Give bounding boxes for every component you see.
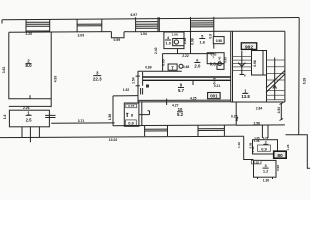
svg-text:4.93: 4.93: [54, 76, 58, 83]
svg-text:0.65: 0.65: [162, 59, 166, 66]
svg-text:2.32: 2.32: [253, 160, 259, 164]
svg-text:0.8: 0.8: [210, 61, 217, 66]
svg-text:1.8: 1.8: [3, 115, 7, 120]
svg-text:0.75: 0.75: [128, 104, 134, 108]
svg-text:1.6: 1.6: [199, 40, 205, 45]
svg-text:0.25: 0.25: [231, 114, 238, 118]
svg-text:80: 80: [277, 153, 283, 159]
svg-text:0.43: 0.43: [223, 57, 227, 63]
svg-text:2.20: 2.20: [25, 32, 32, 36]
svg-text:001: 001: [210, 94, 218, 99]
svg-text:0.9: 0.9: [208, 34, 212, 39]
svg-text:5.7: 5.7: [178, 88, 185, 93]
svg-text:2.0: 2.0: [194, 63, 201, 68]
svg-text:0.9: 0.9: [261, 146, 267, 151]
svg-text:2.84: 2.84: [256, 107, 263, 111]
svg-text:6.98: 6.98: [253, 60, 257, 67]
svg-text:8.0: 8.0: [25, 63, 32, 68]
svg-text:3.71: 3.71: [78, 119, 85, 123]
svg-text:0.98: 0.98: [183, 38, 187, 45]
svg-text:6.97: 6.97: [130, 13, 137, 17]
svg-text:0.48: 0.48: [251, 146, 255, 152]
svg-text:2.26: 2.26: [23, 106, 30, 110]
svg-text:22.3: 22.3: [93, 76, 102, 81]
svg-text:0.98: 0.98: [190, 38, 194, 45]
svg-text:5.2: 5.2: [177, 112, 184, 117]
svg-text:2.40: 2.40: [154, 47, 158, 54]
svg-text:1.52: 1.52: [123, 88, 130, 92]
svg-text:1.26: 1.26: [286, 144, 290, 150]
svg-text:1.30: 1.30: [263, 178, 270, 182]
svg-text:1.06: 1.06: [172, 32, 178, 36]
svg-text:1.54: 1.54: [131, 77, 135, 84]
svg-text:13.8: 13.8: [241, 94, 250, 99]
svg-text:T: T: [171, 65, 174, 70]
svg-text:1.98: 1.98: [108, 114, 112, 121]
svg-text:1.2: 1.2: [263, 168, 269, 173]
svg-text:0.48: 0.48: [183, 65, 190, 69]
svg-text:3.09: 3.09: [77, 34, 84, 38]
svg-text:6.28: 6.28: [302, 78, 306, 85]
svg-text:13.02: 13.02: [109, 138, 118, 142]
svg-text:0.42: 0.42: [217, 56, 221, 62]
svg-text:0.58: 0.58: [216, 39, 222, 43]
svg-text:2.22: 2.22: [182, 54, 189, 58]
svg-text:1.94: 1.94: [140, 32, 147, 36]
svg-text:1.36: 1.36: [237, 142, 241, 148]
svg-text:1.0: 1.0: [165, 41, 171, 46]
svg-text:1.36: 1.36: [254, 139, 260, 143]
svg-text:0.59: 0.59: [113, 38, 120, 42]
svg-text:0.43: 0.43: [213, 78, 217, 85]
svg-text:2.5: 2.5: [26, 117, 33, 122]
svg-text:0.98: 0.98: [276, 165, 280, 171]
svg-text:0.89: 0.89: [145, 65, 152, 69]
svg-text:4.94: 4.94: [277, 107, 281, 114]
svg-text:902: 902: [245, 44, 253, 50]
svg-text:0.9: 0.9: [128, 120, 134, 125]
svg-text:3.62: 3.62: [2, 67, 6, 74]
